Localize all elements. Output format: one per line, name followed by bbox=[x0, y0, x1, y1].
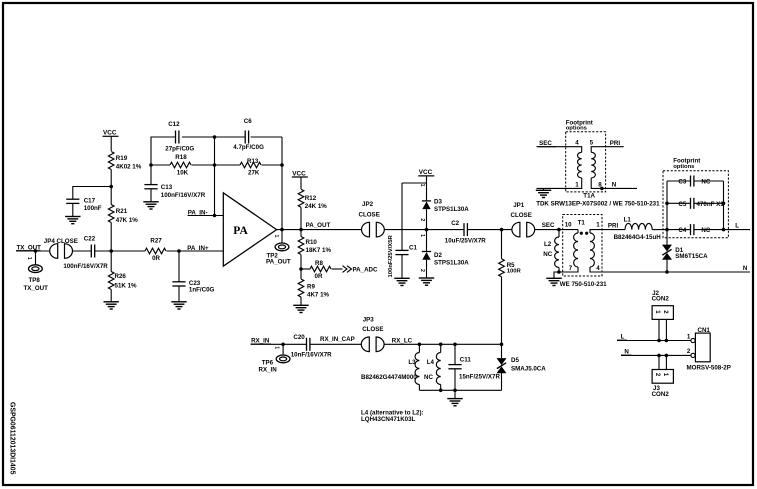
diode D1 bbox=[662, 230, 708, 272]
power net VCC (left) bbox=[103, 130, 119, 151]
wire VCC branch to C1 bbox=[402, 182, 427, 184]
net label PA_IN+ bbox=[187, 245, 209, 252]
svg-text:NC: NC bbox=[701, 227, 710, 234]
svg-text:TX_OUT: TX_OUT bbox=[24, 285, 49, 292]
winding L2 of T1 bbox=[543, 230, 559, 272]
svg-text:C20: C20 bbox=[293, 334, 305, 341]
svg-text:N: N bbox=[743, 265, 748, 272]
svg-text:10K: 10K bbox=[177, 170, 189, 177]
label T1A bbox=[583, 193, 595, 200]
svg-text:GSPG06112013DI1405: GSPG06112013DI1405 bbox=[9, 402, 16, 475]
svg-text:2: 2 bbox=[687, 348, 691, 355]
net label SEC bbox=[542, 222, 555, 229]
wire N line bbox=[602, 270, 750, 274]
footprint options box bbox=[663, 171, 728, 238]
net label PA_OUT bbox=[306, 222, 331, 229]
test point TP2 bbox=[266, 230, 291, 266]
capacitor C3 bbox=[667, 175, 724, 186]
svg-text:STPS1L30A: STPS1L30A bbox=[434, 206, 469, 213]
svg-text:NC: NC bbox=[424, 374, 433, 381]
resistor R10 bbox=[298, 230, 331, 255]
wire TX_OUT to JP4 bbox=[16, 249, 50, 253]
svg-text:L2: L2 bbox=[544, 241, 552, 248]
wire feedback top rail bbox=[151, 137, 282, 165]
svg-text:4: 4 bbox=[596, 265, 600, 272]
svg-text:TP8: TP8 bbox=[29, 277, 41, 284]
ground under C1 bbox=[394, 278, 409, 285]
svg-text:SMAJ5.0CA: SMAJ5.0CA bbox=[511, 366, 546, 373]
svg-text:JP3: JP3 bbox=[363, 316, 375, 323]
svg-text:4.7pF/C0G: 4.7pF/C0G bbox=[233, 144, 264, 151]
svg-text:B82462G4474M000: B82462G4474M000 bbox=[361, 374, 417, 381]
node R13/C6 right rail junction bbox=[280, 163, 284, 167]
op-amp PA bbox=[223, 193, 276, 266]
net label N T1A bbox=[612, 181, 617, 188]
svg-text:STPS1L30A: STPS1L30A bbox=[434, 259, 469, 266]
svg-text:options: options bbox=[673, 164, 695, 170]
svg-text:1: 1 bbox=[274, 346, 280, 349]
svg-text:C13: C13 bbox=[161, 184, 173, 191]
wire R19 bottom to node bbox=[110, 170, 112, 187]
svg-text:PRI: PRI bbox=[608, 223, 619, 230]
capacitor C4 bbox=[667, 224, 724, 235]
power net VCC (R12) bbox=[292, 170, 308, 189]
svg-text:100R: 100R bbox=[507, 269, 522, 275]
svg-text:C4: C4 bbox=[678, 227, 686, 234]
winding T1 middle bbox=[559, 230, 583, 272]
svg-text:JP1: JP1 bbox=[513, 202, 525, 209]
svg-text:R12: R12 bbox=[305, 195, 317, 202]
svg-text:1: 1 bbox=[687, 334, 691, 341]
svg-text:27pF/C0G: 27pF/C0G bbox=[165, 146, 194, 153]
svg-text:WE 750-510-231: WE 750-510-231 bbox=[560, 281, 607, 288]
net label RX_IN bbox=[251, 338, 271, 345]
wire mid rail to PA_IN- bbox=[213, 137, 217, 217]
net label RX_IN_CAP bbox=[320, 336, 355, 343]
transformer T1A box bbox=[566, 132, 606, 192]
svg-text:JP2: JP2 bbox=[362, 201, 374, 208]
net label PRI T1A bbox=[610, 140, 621, 147]
node D2/D3 clamp junction bbox=[425, 228, 429, 232]
svg-text:T1A: T1A bbox=[583, 193, 595, 200]
svg-text:SEC: SEC bbox=[542, 222, 555, 229]
connector J2 bbox=[652, 290, 674, 320]
svg-text:VCC: VCC bbox=[419, 169, 433, 176]
ground under C23 bbox=[171, 302, 186, 309]
svg-text:R26: R26 bbox=[115, 273, 127, 280]
resistor R27 bbox=[145, 238, 166, 263]
diode D2 bbox=[419, 230, 469, 278]
transformer T1 box bbox=[563, 215, 602, 277]
net label PRI bbox=[608, 223, 619, 230]
net label SEC T1A bbox=[539, 140, 557, 147]
wire R21 to TX node bbox=[110, 223, 112, 252]
capacitor C1 bbox=[388, 183, 418, 278]
ground at T1 pin7 bbox=[546, 270, 561, 285]
capacitor C11 bbox=[448, 344, 500, 390]
svg-text:L3: L3 bbox=[408, 359, 416, 366]
test point TP8 bbox=[24, 251, 49, 292]
svg-text:C12: C12 bbox=[168, 121, 180, 128]
svg-text:PA_IN+: PA_IN+ bbox=[187, 245, 209, 252]
node R19/R21/C17 junction bbox=[109, 185, 113, 189]
svg-text:CLOSE: CLOSE bbox=[511, 212, 532, 219]
svg-text:R10: R10 bbox=[306, 239, 318, 246]
wire R12 to output row bbox=[300, 207, 302, 229]
resistor R8 bbox=[301, 260, 331, 280]
capacitor C20 bbox=[291, 334, 332, 358]
ground under C11 bbox=[447, 390, 462, 406]
power net VCC (clamp) bbox=[418, 169, 434, 183]
svg-text:10: 10 bbox=[565, 222, 572, 229]
svg-text:R19: R19 bbox=[116, 155, 128, 162]
svg-text:27K: 27K bbox=[248, 170, 260, 177]
svg-text:NC: NC bbox=[543, 251, 552, 258]
label T1 part number bbox=[560, 281, 607, 288]
resistor R18 bbox=[170, 154, 191, 177]
svg-text:PA_OUT: PA_OUT bbox=[306, 222, 331, 229]
ground under C17 bbox=[65, 217, 80, 224]
svg-text:CLOSE: CLOSE bbox=[362, 326, 383, 333]
wire R5 to RX_LC node bbox=[501, 277, 503, 345]
note L4 alternative bbox=[361, 410, 424, 423]
label footprint options right bbox=[673, 157, 700, 170]
svg-text:RX_IN: RX_IN bbox=[259, 366, 278, 373]
svg-text:VCC: VCC bbox=[292, 170, 306, 177]
svg-text:R21: R21 bbox=[116, 208, 128, 215]
svg-text:SEC: SEC bbox=[539, 140, 552, 147]
svg-text:7: 7 bbox=[569, 265, 573, 272]
svg-text:B82464G4-15uH: B82464G4-15uH bbox=[614, 234, 662, 241]
capacitor C17 bbox=[66, 197, 102, 216]
node C13/R18 junction bbox=[149, 163, 153, 167]
svg-text:C11: C11 bbox=[460, 356, 472, 363]
winding T1A right bbox=[591, 147, 637, 191]
ground under R26 bbox=[104, 302, 119, 309]
svg-text:C5: C5 bbox=[678, 201, 686, 208]
svg-text:C22: C22 bbox=[84, 235, 96, 242]
T1 pin numbers bbox=[565, 222, 601, 273]
wires J2 to L line bbox=[659, 319, 666, 340]
svg-text:RX_IN_CAP: RX_IN_CAP bbox=[320, 336, 355, 343]
winding T1A left bbox=[537, 147, 582, 189]
inductor L1 bbox=[602, 217, 667, 242]
svg-text:NC: NC bbox=[701, 179, 710, 186]
svg-text:5: 5 bbox=[590, 139, 594, 146]
svg-text:0R: 0R bbox=[152, 255, 160, 262]
svg-text:D2: D2 bbox=[434, 252, 442, 259]
svg-text:18K7 1%: 18K7 1% bbox=[306, 247, 332, 254]
wire C2 to JP1 bbox=[467, 228, 513, 232]
svg-text:T1: T1 bbox=[578, 220, 586, 227]
wire C20 to JP3 bbox=[310, 343, 361, 345]
wire R27 to PA_IN+ bbox=[167, 249, 224, 253]
ground under C13 bbox=[143, 202, 158, 209]
svg-text:L4: L4 bbox=[427, 359, 435, 366]
plot id text bbox=[9, 402, 16, 475]
test point TP6 bbox=[259, 344, 291, 373]
hier pin PA_ADC bbox=[332, 266, 378, 274]
wire N line connector bbox=[621, 354, 691, 358]
svg-text:15nF/25V/X7R: 15nF/25V/X7R bbox=[459, 373, 500, 380]
connector J3 bbox=[652, 370, 674, 399]
label T1A part number bbox=[536, 200, 660, 207]
svg-text:MORSV-508-2P: MORSV-508-2P bbox=[687, 365, 731, 372]
wire JP2 to clamp node bbox=[384, 229, 464, 231]
svg-text:LQH43CN471K03L: LQH43CN471K03L bbox=[361, 416, 416, 423]
diode D3 bbox=[419, 183, 469, 230]
capacitor C13 bbox=[144, 165, 205, 202]
jumper JP2 CLOSE bbox=[359, 201, 385, 237]
svg-text:VCC: VCC bbox=[103, 130, 117, 137]
net label PA_IN- bbox=[188, 209, 224, 216]
net label N bbox=[743, 265, 748, 272]
wire RX_LC row bbox=[384, 343, 503, 347]
svg-text:CON2: CON2 bbox=[652, 296, 670, 303]
svg-text:47K 1%: 47K 1% bbox=[116, 217, 139, 224]
svg-text:RX_LC: RX_LC bbox=[392, 337, 413, 344]
svg-text:JP4 CLOSE: JP4 CLOSE bbox=[44, 238, 78, 245]
svg-text:1nF/C0G: 1nF/C0G bbox=[189, 287, 215, 294]
capacitor C2 bbox=[445, 220, 486, 244]
wire right rail to PA output bbox=[281, 137, 283, 230]
svg-text:R18: R18 bbox=[175, 154, 187, 161]
svg-text:PA_OUT: PA_OUT bbox=[266, 259, 291, 266]
svg-text:100nF: 100nF bbox=[84, 205, 102, 212]
svg-text:D3: D3 bbox=[434, 198, 442, 205]
wire PA output row bbox=[277, 228, 362, 232]
inductor L4 bbox=[424, 344, 441, 390]
wire node to C17 bbox=[73, 187, 111, 200]
svg-text:options: options bbox=[566, 126, 588, 132]
svg-text:TDK SRW13EP-X07S002 / WE 750-5: TDK SRW13EP-X07S002 / WE 750-510-231 bbox=[536, 200, 660, 207]
svg-text:N: N bbox=[612, 181, 617, 188]
svg-text:2: 2 bbox=[419, 218, 425, 221]
svg-text:C6: C6 bbox=[244, 118, 252, 125]
svg-text:N: N bbox=[624, 349, 629, 356]
resistor R19 bbox=[108, 152, 141, 171]
wire footprint left bus bbox=[665, 181, 669, 231]
svg-text:TP6: TP6 bbox=[262, 359, 274, 366]
wire footprint right bus bbox=[722, 181, 726, 231]
capacitor C6 bbox=[233, 118, 264, 151]
net label N conn bbox=[621, 349, 631, 356]
svg-text:100nF/16V/X7R: 100nF/16V/X7R bbox=[161, 192, 206, 199]
svg-text:R13: R13 bbox=[247, 158, 259, 165]
svg-text:1: 1 bbox=[575, 181, 579, 188]
wires J3 to N line bbox=[659, 355, 666, 369]
svg-text:L: L bbox=[735, 222, 739, 229]
svg-text:470nF X1: 470nF X1 bbox=[697, 201, 725, 208]
svg-text:PA_ADC: PA_ADC bbox=[353, 266, 379, 273]
svg-text:0R: 0R bbox=[315, 273, 323, 280]
svg-text:SM6T15CA: SM6T15CA bbox=[675, 253, 708, 260]
wire C22 to R27 bbox=[95, 250, 145, 252]
resistor R5 bbox=[499, 230, 522, 277]
label footprint options T1A bbox=[566, 120, 593, 132]
svg-text:100nF/25V/X5R: 100nF/25V/X5R bbox=[388, 235, 394, 278]
svg-text:10uF/25V/X7R: 10uF/25V/X7R bbox=[445, 237, 486, 244]
wire R18/R13 rail bbox=[151, 164, 282, 166]
node top rail / mid rail bbox=[213, 135, 217, 139]
svg-text:1: 1 bbox=[596, 222, 600, 229]
svg-text:C1: C1 bbox=[409, 245, 417, 252]
svg-text:51K 1%: 51K 1% bbox=[115, 283, 138, 290]
capacitor C22 bbox=[63, 235, 108, 270]
node C22/R21/R26/R27 junction bbox=[109, 249, 113, 253]
winding T1 right bbox=[585, 230, 602, 272]
svg-text:L1: L1 bbox=[624, 217, 632, 224]
wire RX_IN to C20 bbox=[251, 343, 307, 347]
diode D5 bbox=[497, 344, 547, 390]
svg-text:CON2: CON2 bbox=[652, 391, 670, 398]
net label L conn bbox=[617, 334, 627, 341]
svg-text:PRI: PRI bbox=[610, 140, 621, 147]
svg-text:C3: C3 bbox=[678, 179, 686, 186]
svg-text:4K02 1%: 4K02 1% bbox=[116, 164, 142, 171]
svg-text:1: 1 bbox=[273, 235, 279, 238]
wire JP1 to T1 bbox=[535, 228, 578, 232]
node R10/R8/R9 junction bbox=[299, 255, 303, 271]
node R18/R13/mid rail junction bbox=[213, 163, 217, 167]
ground under D2 bbox=[419, 278, 434, 285]
jumper JP1 CLOSE bbox=[511, 202, 535, 237]
capacitor C5 bbox=[667, 198, 724, 209]
svg-text:1: 1 bbox=[419, 234, 425, 237]
svg-text:4: 4 bbox=[575, 139, 579, 146]
svg-text:4K7 1%: 4K7 1% bbox=[307, 291, 330, 298]
jumper JP4 CLOSE bbox=[44, 238, 78, 258]
capacitor C23 bbox=[172, 251, 214, 302]
capacitor C12 bbox=[165, 121, 194, 153]
wire RX bottom rail bbox=[419, 389, 501, 393]
svg-text:100nF/16V/X7R: 100nF/16V/X7R bbox=[63, 263, 108, 270]
resistor R13 bbox=[240, 158, 261, 177]
T1A pin numbers bbox=[575, 139, 602, 188]
svg-text:C2: C2 bbox=[451, 220, 459, 227]
svg-text:R9: R9 bbox=[307, 284, 315, 291]
resistor R26 bbox=[108, 251, 137, 302]
svg-text:D5: D5 bbox=[511, 357, 519, 364]
resistor R12 bbox=[298, 189, 327, 210]
connector CN1 bbox=[687, 327, 731, 371]
svg-text:CLOSE: CLOSE bbox=[359, 212, 380, 219]
net label RX_LC bbox=[392, 337, 413, 344]
resistor R21 bbox=[108, 187, 138, 225]
svg-text:R8: R8 bbox=[315, 260, 323, 267]
svg-text:2: 2 bbox=[419, 269, 425, 272]
svg-text:PA: PA bbox=[233, 225, 248, 237]
net label TX_OUT bbox=[16, 244, 41, 251]
svg-text:24K 1%: 24K 1% bbox=[305, 203, 328, 210]
net label L bbox=[724, 222, 751, 229]
svg-text:1: 1 bbox=[26, 257, 32, 260]
svg-text:C17: C17 bbox=[84, 197, 96, 204]
ground at T1A bbox=[536, 188, 551, 197]
ground under R9 bbox=[293, 305, 308, 312]
inductor L3 bbox=[361, 344, 419, 390]
resistor R9 bbox=[298, 269, 329, 305]
wire L line bbox=[617, 339, 691, 343]
svg-text:1: 1 bbox=[419, 184, 425, 187]
svg-text:10nF/16V/X7R: 10nF/16V/X7R bbox=[291, 352, 332, 359]
jumper JP3 CLOSE bbox=[361, 316, 384, 351]
svg-text:L: L bbox=[621, 334, 625, 341]
svg-text:R27: R27 bbox=[150, 238, 162, 245]
